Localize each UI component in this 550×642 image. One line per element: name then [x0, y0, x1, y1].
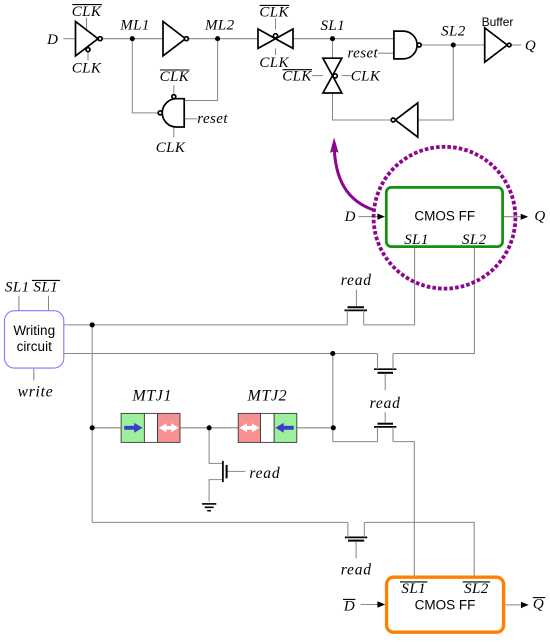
overline Dbar — [343, 598, 355, 600]
TG2 center bubble — [333, 74, 337, 78]
arrowhead Q out of green box — [521, 214, 529, 220]
overline CLKbar G1 — [160, 69, 190, 71]
svg-text:CLK: CLK — [259, 5, 289, 21]
node ML1 — [130, 36, 135, 41]
T3 drain lead — [392, 427, 394, 442]
wire D to U1 — [63, 38, 75, 40]
wire writing circuit write stub — [33, 369, 35, 381]
svg-text:CLK: CLK — [72, 4, 102, 20]
node MTJ left column — [90, 425, 95, 430]
svg-text:ML1: ML1 — [119, 17, 150, 33]
overline CLKbar TG1 — [260, 4, 290, 6]
wire row1 T1 to green box SL1 — [364, 247, 415, 325]
purple arrow curve — [334, 151, 373, 211]
T3 gate bar — [378, 423, 394, 425]
node SL2 — [451, 42, 456, 47]
wire CLKbar stub of U1 — [86, 18, 88, 31]
wire SL1 down to TG2 — [332, 39, 334, 59]
wire green box to Q — [503, 216, 521, 218]
node SL1 — [330, 36, 335, 41]
overline Qbar — [533, 597, 545, 599]
T4 gate bar — [348, 540, 364, 542]
wire row1 writing circuit to T1 — [64, 324, 347, 326]
T2 source lead — [377, 354, 379, 370]
wire ML2 segment U2 out to TG1 — [189, 38, 258, 40]
svg-text:D: D — [344, 209, 356, 225]
wire U4 input from SL2 — [418, 45, 454, 120]
wire T5 to ground — [209, 480, 223, 502]
U1 clock bubble — [86, 48, 90, 52]
TG1 right triangle — [276, 29, 294, 48]
wire MTJ row left — [92, 427, 121, 429]
T5 gate bar — [226, 465, 228, 478]
ground — [202, 504, 216, 511]
wire writing circuit SL1 stub — [18, 296, 20, 310]
wire TG2 CLK stub — [342, 75, 351, 77]
overline SL2bar orange — [463, 581, 490, 583]
svg-text:MTJ1: MTJ1 — [131, 388, 172, 405]
T1 drain lead — [363, 310, 365, 325]
wire MTJ node down to T5 — [209, 428, 223, 464]
svg-text:SL1: SL1 — [404, 232, 429, 248]
TG1 center bubble — [273, 34, 277, 38]
G1 output bubble — [158, 111, 162, 115]
nor gate G2 body — [394, 31, 417, 59]
wire ML1 segment U1 out to U2 in — [102, 38, 163, 40]
purple arrow head — [330, 137, 339, 153]
writing circuit box — [5, 311, 64, 368]
svg-text:CLK: CLK — [351, 69, 381, 85]
wire CLK stub of U1 — [87, 52, 89, 60]
wire row2 T2 to green box SL2 — [393, 247, 474, 354]
svg-text:read: read — [370, 395, 401, 412]
T1 source lead — [346, 310, 348, 325]
overline CLKbar U1 — [72, 4, 102, 6]
wire row2 node down to MTJ2 and T3 — [333, 354, 378, 442]
MTJ2 white double arrow — [245, 426, 254, 430]
arrowhead D into green box — [377, 214, 385, 220]
svg-text:reset: reset — [197, 111, 228, 127]
wire G2 out SL2 to buffer — [421, 44, 484, 46]
svg-text:ML2: ML2 — [204, 17, 235, 33]
transmission gate TG1 left triangle — [258, 29, 276, 48]
overline SL1bar writing — [32, 279, 60, 281]
wire TG2 out to U4 output — [333, 93, 392, 120]
svg-text:Buffer: Buffer — [482, 15, 514, 29]
svg-text:CLK: CLK — [282, 69, 312, 85]
wire D to green box — [359, 216, 379, 218]
wire MTJ2 to node — [297, 427, 334, 429]
wire row2 writing circuit to T2 — [64, 353, 377, 355]
U3 output bubble — [507, 43, 511, 47]
node ML2 — [215, 36, 220, 41]
svg-text:CLK: CLK — [156, 140, 186, 156]
node MTJ middle — [207, 425, 212, 430]
MTJ1 barrier (white) — [144, 413, 157, 442]
svg-text:read: read — [341, 561, 372, 578]
svg-text:Writing: Writing — [13, 323, 55, 338]
wire TG1 to SL1 to G2 input — [293, 38, 394, 40]
wire left long vertical — [91, 325, 93, 523]
nand gate G1 body — [162, 99, 184, 127]
arrowhead Qbar out of orange box — [521, 602, 529, 608]
buffer U3 — [485, 28, 508, 62]
wire bottom row T4 to orange box SL2bar — [364, 522, 474, 577]
MTJ1 pinned layer (red) — [158, 413, 181, 442]
wire T3 down to orange box SL1bar — [393, 442, 414, 577]
T4 drain lead — [363, 522, 365, 537]
T3 gate lead — [384, 412, 386, 423]
svg-text:CLK: CLK — [72, 61, 102, 77]
T2 gate bar — [378, 372, 394, 374]
wire reset to G2 — [378, 52, 394, 54]
T5 gate lead — [228, 470, 246, 472]
wire CLKbar stub of TG1 — [275, 19, 277, 30]
svg-text:SL1: SL1 — [401, 581, 426, 597]
svg-text:Q: Q — [533, 597, 544, 613]
TG2 bottom triangle — [323, 76, 342, 93]
op U1 output bubble — [98, 37, 102, 41]
dotted highlight circle — [374, 147, 516, 289]
node writing row1 — [90, 322, 95, 327]
MTJ1 blue magnetization arrow — [124, 426, 135, 430]
wire bottom row to T4 — [92, 521, 348, 523]
wire orange box to Qbar — [505, 604, 521, 606]
feedback inverter U4 — [395, 103, 418, 137]
svg-text:SL2: SL2 — [464, 581, 489, 597]
T1 gate lead — [355, 290, 357, 307]
overline CLKbar TG2 — [283, 69, 313, 71]
wire MTJ1 to MTJ2 — [180, 427, 238, 429]
svg-text:MTJ2: MTJ2 — [247, 388, 288, 405]
svg-text:write: write — [18, 384, 54, 401]
svg-text:circuit: circuit — [17, 339, 53, 354]
svg-text:CMOS FF: CMOS FF — [414, 208, 475, 223]
transistor T5 channel bar — [222, 461, 224, 482]
T1 gate bar — [348, 306, 365, 308]
CMOS FF orange box — [387, 577, 504, 632]
wire buffer out to Q — [511, 44, 521, 46]
svg-text:reset: reset — [347, 46, 378, 62]
arrowhead Dbar into orange box — [377, 601, 385, 607]
transistor T1 read channel bar — [345, 309, 368, 311]
wire G1 output to ML1 — [132, 39, 158, 113]
overline SL1bar orange — [400, 581, 427, 583]
wire Dbar to orange box — [361, 604, 378, 606]
wire G1 reset input — [184, 118, 197, 120]
transistor T2 channel bar — [374, 368, 396, 370]
G1 clock bubble — [172, 95, 176, 99]
MTJ2 blue magnetization arrow — [283, 426, 294, 430]
svg-text:read: read — [249, 465, 280, 482]
wire TG2 CLKbar stub — [312, 75, 323, 77]
T2 drain lead — [392, 354, 394, 370]
wire G1 CLK stub — [173, 127, 175, 137]
T4 gate lead — [355, 542, 357, 559]
wire G1 input from ML2 — [184, 39, 217, 101]
svg-text:Q: Q — [525, 38, 536, 54]
svg-text:SL1: SL1 — [5, 280, 30, 296]
CMOS FF green box — [386, 187, 502, 246]
transistor T3 channel bar — [374, 426, 396, 428]
MTJ2 free layer (green) — [274, 413, 297, 442]
MTJ1 white double arrow — [165, 426, 174, 430]
svg-text:D: D — [46, 32, 58, 48]
wire G1 CLKbar stub — [173, 85, 175, 93]
svg-text:D: D — [343, 599, 355, 615]
svg-text:CMOS FF: CMOS FF — [415, 598, 476, 613]
node row2 branch — [330, 351, 335, 356]
inverter U2 — [163, 22, 186, 56]
svg-text:SL1: SL1 — [33, 280, 58, 296]
MTJ1 free layer (green) — [121, 413, 144, 442]
U2 output bubble — [184, 37, 188, 41]
svg-text:CLK: CLK — [160, 69, 190, 85]
node MTJ right — [331, 425, 336, 430]
transmission gate TG2 top triangle — [323, 58, 342, 75]
svg-text:SL2: SL2 — [441, 23, 466, 39]
svg-text:Q: Q — [534, 209, 545, 225]
G2 output bubble — [417, 43, 421, 47]
svg-text:SL1: SL1 — [321, 18, 346, 34]
T2 gate lead — [384, 373, 386, 390]
svg-text:SL2: SL2 — [462, 232, 487, 248]
T4 source lead — [347, 522, 349, 537]
wire writing circuit SL1bar stub — [48, 296, 50, 310]
tri-state inverter U1 — [76, 22, 99, 56]
MTJ2 barrier (white) — [261, 413, 275, 442]
wire CLK stub of TG1 — [275, 48, 277, 55]
svg-text:read: read — [341, 272, 372, 289]
T3 source lead — [377, 427, 379, 442]
transistor T4 channel bar — [345, 536, 367, 538]
U4 output bubble — [391, 118, 395, 122]
MTJ2 pinned layer (red) — [238, 413, 260, 442]
